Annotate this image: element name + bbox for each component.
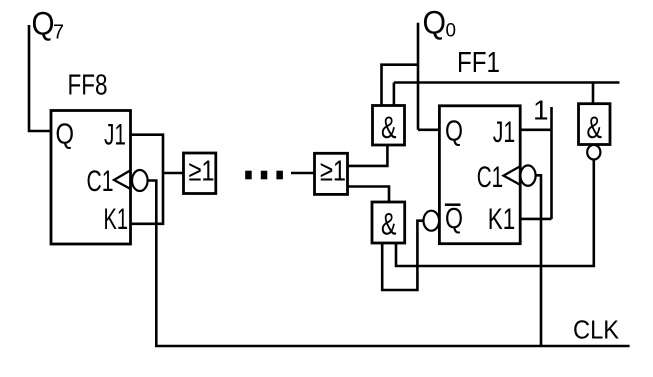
- svg-text:Q: Q: [445, 203, 463, 235]
- CLK rail: [155, 345, 630, 348]
- svg-text:Q: Q: [56, 119, 75, 151]
- ellipsis dot 2: [261, 171, 268, 180]
- svg-text:&: &: [587, 109, 603, 145]
- FF1 Qbar output bubble: [424, 211, 440, 231]
- svg-text:J1: J1: [104, 119, 126, 152]
- FF1 clock edge wedge: [504, 166, 521, 185]
- flip-flop FF8 body: [51, 111, 131, 245]
- svg-text:K1: K1: [488, 203, 516, 236]
- OR gate U2 box: [315, 153, 348, 194]
- svg-text:Q: Q: [445, 116, 463, 148]
- wire Q0 to FF1 Q output: [418, 129, 440, 132]
- NAND gate U5 box: [579, 104, 611, 145]
- svg-text:1: 1: [533, 95, 549, 126]
- svg-text:Q: Q: [423, 5, 447, 41]
- FF8 clock edge wedge: [114, 170, 131, 189]
- svg-text:FF1: FF1: [457, 47, 500, 79]
- FF1 pin label Qbar: [445, 203, 463, 235]
- wire Q0 vertical: [417, 23, 420, 130]
- svg-text:C1: C1: [87, 165, 114, 198]
- wire U4 output to NAND U5 output node: [396, 160, 594, 267]
- svg-text:J1: J1: [493, 116, 516, 149]
- svg-text:FF8: FF8: [68, 70, 108, 102]
- svg-text:CLK: CLK: [573, 315, 620, 345]
- wire constant 1 to J1: [520, 129, 551, 132]
- svg-text:Q: Q: [32, 6, 55, 42]
- svg-text:C1: C1: [477, 161, 504, 194]
- svg-text:≥1: ≥1: [320, 155, 346, 187]
- AND gate U3 box: [373, 106, 405, 146]
- wire junction to OR gate U1 input: [163, 172, 184, 175]
- wire FF1 Qbar to U4 lower input: [382, 221, 424, 290]
- wire U2 output to AND gate U3: [348, 146, 388, 166]
- FF8 clock bubble: [132, 170, 148, 191]
- wire FF1 clock to CLK rail: [536, 175, 541, 346]
- wire constant 1 vertical: [550, 107, 553, 219]
- wire U2 output to AND gate U4: [348, 187, 390, 204]
- svg-text:≥1: ≥1: [189, 155, 215, 187]
- FF1 clock bubble: [520, 165, 535, 185]
- svg-text:7: 7: [53, 22, 64, 44]
- flip-flop FF1 body: [439, 106, 520, 244]
- wire Q7 to FF8 Q output: [29, 25, 52, 131]
- net label Q7: [32, 6, 65, 44]
- net label Q0: [423, 5, 457, 42]
- wire top feedback rail to NAND U5: [394, 81, 620, 84]
- wire constant 1 to K1: [520, 218, 551, 221]
- svg-text:&: &: [381, 109, 397, 145]
- ellipsis dot 3: [276, 171, 283, 180]
- wire into OR gate U2 input: [291, 172, 315, 175]
- ellipsis dot 1: [245, 171, 252, 180]
- svg-text:0: 0: [446, 21, 457, 42]
- U5 output inversion bubble: [587, 145, 600, 160]
- wire FF8 clock to CLK rail: [148, 181, 157, 347]
- svg-text:&: &: [381, 206, 397, 242]
- svg-text:K1: K1: [104, 203, 129, 236]
- wire top rail down to NAND U5: [592, 83, 595, 105]
- wire Q0 branch to U3 left input: [382, 65, 419, 106]
- wire top rail to U3 right input: [393, 83, 396, 107]
- wire FF8 J1 feedback loop to K1: [131, 135, 164, 224]
- AND gate U4 box: [372, 202, 405, 243]
- OR gate U1 box: [184, 153, 216, 194]
